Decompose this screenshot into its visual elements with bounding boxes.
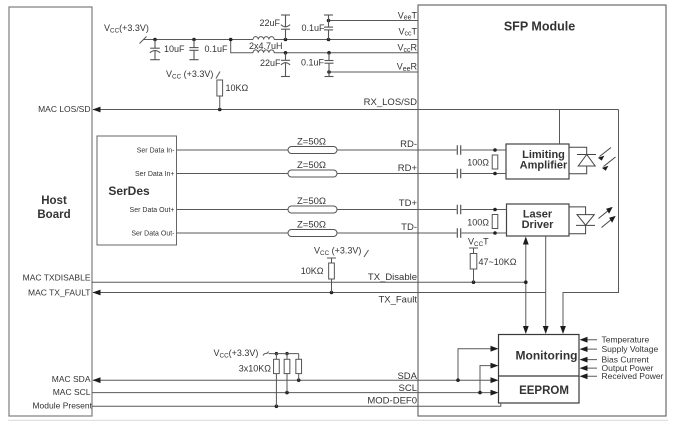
svg-text:10uF: 10uF <box>164 44 185 54</box>
svg-text:RX_LOS/SD: RX_LOS/SD <box>364 97 417 108</box>
svg-text:Supply Voltage: Supply Voltage <box>602 344 659 354</box>
svg-text:Received Power: Received Power <box>602 371 664 381</box>
svg-text:VeeT: VeeT <box>398 10 418 21</box>
svg-text:Host: Host <box>41 195 67 207</box>
svg-text:TD+: TD+ <box>399 198 418 209</box>
svg-text:RD+: RD+ <box>398 163 418 174</box>
svg-text:Ser Data Out-: Ser Data Out- <box>131 230 175 237</box>
svg-text:22uF: 22uF <box>260 58 281 68</box>
svg-text:100Ω: 100Ω <box>467 218 489 228</box>
svg-text:Amplifier: Amplifier <box>520 160 568 172</box>
svg-text:SDA: SDA <box>397 371 417 382</box>
svg-text:VCCT: VCCT <box>468 237 489 249</box>
svg-text:VCC(+3.3V): VCC(+3.3V) <box>104 23 149 35</box>
svg-text:0.1uF: 0.1uF <box>301 58 325 68</box>
svg-text:Board: Board <box>37 209 70 221</box>
svg-text:Module Present: Module Present <box>32 400 92 410</box>
svg-text:SFP Module: SFP Module <box>504 20 575 34</box>
svg-text:MOD-DEF0: MOD-DEF0 <box>367 396 417 407</box>
svg-text:MAC SCL: MAC SCL <box>53 387 91 397</box>
svg-text:Monitoring: Monitoring <box>516 349 578 363</box>
svg-text:Z=50Ω: Z=50Ω <box>297 220 326 231</box>
svg-text:10KΩ: 10KΩ <box>301 266 324 276</box>
svg-text:10KΩ: 10KΩ <box>226 83 249 93</box>
svg-text:2x4.7uH: 2x4.7uH <box>249 41 283 51</box>
svg-text:MAC TXDISABLE: MAC TXDISABLE <box>23 273 91 283</box>
svg-text:Z=50Ω: Z=50Ω <box>297 196 326 207</box>
svg-text:Driver: Driver <box>522 219 555 231</box>
svg-text:Z=50Ω: Z=50Ω <box>297 137 326 148</box>
svg-text:MAC TX_FAULT: MAC TX_FAULT <box>28 288 91 298</box>
svg-text:VCC(+3.3V): VCC(+3.3V) <box>214 348 259 360</box>
svg-text:RD-: RD- <box>400 139 417 150</box>
svg-text:0.1uF: 0.1uF <box>205 44 229 54</box>
svg-text:MAC SDA: MAC SDA <box>52 374 91 384</box>
svg-text:Ser Data In-: Ser Data In- <box>137 147 175 154</box>
svg-text:SerDes: SerDes <box>108 184 150 198</box>
svg-text:Ser Data In+: Ser Data In+ <box>135 171 175 178</box>
svg-text:TX_Fault: TX_Fault <box>378 295 417 306</box>
svg-text:VccR: VccR <box>397 43 417 54</box>
svg-text:MAC LOS/SD: MAC LOS/SD <box>38 104 90 114</box>
svg-text:VCC (+3.3V): VCC (+3.3V) <box>166 69 213 81</box>
svg-text:SCL: SCL <box>399 383 417 394</box>
svg-text:100Ω: 100Ω <box>467 158 489 168</box>
svg-text:47~10KΩ: 47~10KΩ <box>479 257 517 267</box>
svg-text:TD-: TD- <box>401 222 417 233</box>
svg-text:3x10KΩ: 3x10KΩ <box>239 364 272 374</box>
svg-text:EEPROM: EEPROM <box>519 385 569 397</box>
svg-text:22uF: 22uF <box>259 18 280 28</box>
svg-text:TX_Disable: TX_Disable <box>368 272 417 283</box>
svg-text:VCC (+3.3V): VCC (+3.3V) <box>314 246 361 258</box>
svg-text:0.1uF: 0.1uF <box>301 23 325 33</box>
svg-text:Ser Data Out+: Ser Data Out+ <box>130 207 175 214</box>
svg-text:VccT: VccT <box>398 27 417 38</box>
svg-text:VeeR: VeeR <box>397 62 418 73</box>
svg-text:Z=50Ω: Z=50Ω <box>297 160 326 171</box>
